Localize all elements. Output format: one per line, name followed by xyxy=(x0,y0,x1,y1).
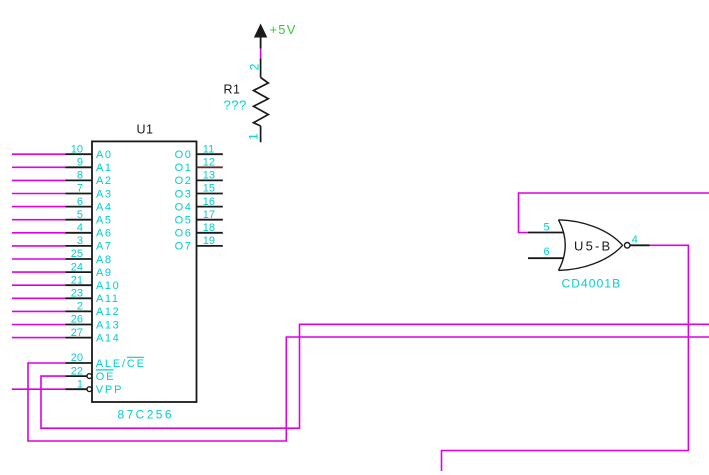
svg-text:5: 5 xyxy=(77,209,83,221)
wire net A10 xyxy=(12,284,66,286)
U1 pin 5 (A5) xyxy=(66,209,113,227)
svg-text:O2: O2 xyxy=(175,175,193,187)
svg-text:12: 12 xyxy=(203,157,215,169)
svg-text:VPP: VPP xyxy=(96,384,123,396)
wire net OE (pin 22 to right edge) xyxy=(41,324,709,428)
svg-text:U1: U1 xyxy=(137,123,154,137)
U1 pin 4 (A6) xyxy=(66,222,113,240)
svg-text:A4: A4 xyxy=(96,201,113,213)
U1 pin 1 (VPP, bubble) xyxy=(66,378,124,396)
U5-B pin 4 output stub xyxy=(630,234,649,246)
svg-text:17: 17 xyxy=(203,209,215,221)
svg-text:19: 19 xyxy=(203,235,215,247)
svg-text:18: 18 xyxy=(203,222,215,234)
U1 pin 8 (A2) xyxy=(66,170,113,188)
wire net to U5-B pin 5 (to right edge) xyxy=(519,193,709,233)
U5-B pin 6 stub xyxy=(528,246,563,258)
svg-text:O3: O3 xyxy=(175,188,193,200)
svg-text:A10: A10 xyxy=(96,280,120,292)
svg-text:9: 9 xyxy=(77,157,83,169)
svg-text:2: 2 xyxy=(248,63,262,70)
svg-text:26: 26 xyxy=(71,314,83,326)
svg-text:15: 15 xyxy=(203,183,215,195)
wire net A0 xyxy=(12,153,66,155)
svg-text:21: 21 xyxy=(71,274,83,286)
svg-text:23: 23 xyxy=(71,288,83,300)
svg-text:27: 27 xyxy=(71,327,83,339)
U1 pin 7 (A3) xyxy=(66,183,113,201)
svg-text:+5V: +5V xyxy=(270,22,297,37)
U1 pin 15 (O3) xyxy=(175,183,223,201)
svg-text:20: 20 xyxy=(71,352,83,364)
svg-text:1: 1 xyxy=(77,378,83,390)
svg-text:24: 24 xyxy=(71,261,83,273)
svg-text:O4: O4 xyxy=(175,201,193,213)
U1 pin 11 (O0) xyxy=(175,143,223,161)
svg-text:A11: A11 xyxy=(96,293,120,305)
svg-text:CD4001B: CD4001B xyxy=(562,277,622,291)
NOR gate U5-B body xyxy=(559,220,631,271)
power symbol +5V xyxy=(254,22,297,49)
U1 pin 12 (O1) xyxy=(175,157,223,175)
svg-text:A12: A12 xyxy=(96,306,120,318)
svg-text:R1: R1 xyxy=(224,83,241,97)
svg-text:A0: A0 xyxy=(96,149,113,161)
U1 pin 17 (O5) xyxy=(175,209,223,227)
U1 pin 10 (A0) xyxy=(66,143,113,161)
U1 pin 27 (A14) xyxy=(66,327,121,345)
svg-text:A7: A7 xyxy=(96,241,113,253)
U1 pin 3 (A7) xyxy=(66,235,113,253)
wire net A13 xyxy=(12,324,66,326)
svg-text:11: 11 xyxy=(203,143,214,155)
U5-B pin 5 stub xyxy=(528,222,563,234)
wire net A5 xyxy=(12,219,66,221)
svg-text:A14: A14 xyxy=(96,332,120,344)
svg-text:8: 8 xyxy=(77,170,83,182)
wire net A2 xyxy=(12,179,66,181)
U1 pin 16 (O4) xyxy=(175,196,223,214)
wire net A3 xyxy=(12,193,66,195)
U1 pin 25 (A8) xyxy=(66,248,113,266)
U1 pin 20 (ALE/CE) xyxy=(66,352,146,370)
U1 pin 24 (A9) xyxy=(66,261,113,279)
svg-text:22: 22 xyxy=(71,365,83,377)
U1 pin 2 (A12) xyxy=(66,301,121,319)
wire net A12 xyxy=(12,310,66,312)
U1 pin 23 (A11) xyxy=(66,288,120,306)
svg-text:O7: O7 xyxy=(175,241,193,253)
svg-text:O6: O6 xyxy=(175,228,193,240)
svg-text:OE: OE xyxy=(96,371,116,383)
svg-text:A8: A8 xyxy=(96,254,113,266)
svg-text:U5-B: U5-B xyxy=(574,239,612,254)
svg-text:???: ??? xyxy=(224,98,247,113)
U1 pin 26 (A13) xyxy=(66,314,121,332)
wire net A7 xyxy=(12,245,66,247)
U1 pin 13 (O2) xyxy=(175,170,223,188)
wire net A9 xyxy=(12,271,66,273)
resistor R1 xyxy=(254,59,269,143)
svg-text:4: 4 xyxy=(632,234,638,246)
svg-text:A6: A6 xyxy=(96,228,113,240)
U1 pin 21 (A10) xyxy=(66,274,121,292)
svg-text:2: 2 xyxy=(77,301,83,313)
U1 pin 9 (A1) xyxy=(66,157,113,175)
wire +5V net to R1 pin 2 xyxy=(260,49,262,59)
svg-text:4: 4 xyxy=(77,222,83,234)
svg-text:A5: A5 xyxy=(96,215,113,227)
svg-text:A1: A1 xyxy=(96,162,113,174)
svg-text:1: 1 xyxy=(247,133,261,140)
svg-text:O0: O0 xyxy=(175,149,193,161)
svg-text:A13: A13 xyxy=(96,319,120,331)
wire net A14 xyxy=(12,337,66,339)
U1 pin 22 (OE, active low bubble) xyxy=(66,365,116,383)
wire net A1 xyxy=(12,166,66,168)
U1 pin 6 (A4) xyxy=(66,196,113,214)
svg-text:ALE/CE: ALE/CE xyxy=(96,358,146,370)
wire net A4 xyxy=(12,206,66,208)
svg-text:O1: O1 xyxy=(175,162,193,174)
svg-text:5: 5 xyxy=(544,222,550,234)
svg-text:3: 3 xyxy=(77,235,83,247)
svg-text:A2: A2 xyxy=(96,175,113,187)
wire net A11 xyxy=(12,297,66,299)
IC U1 body (87C256) xyxy=(92,141,197,402)
U1 pin 18 (O6) xyxy=(175,222,223,240)
svg-text:7: 7 xyxy=(77,183,83,195)
wire net A6 xyxy=(12,232,66,234)
svg-text:10: 10 xyxy=(71,143,83,155)
svg-text:6: 6 xyxy=(544,246,550,258)
svg-text:A9: A9 xyxy=(96,267,113,279)
wire net A8 xyxy=(12,258,66,260)
svg-text:87C256: 87C256 xyxy=(118,408,174,422)
svg-text:16: 16 xyxy=(203,196,215,208)
wire net from U5-B pin 4 output xyxy=(442,245,689,471)
svg-text:25: 25 xyxy=(71,248,83,260)
wire net ALE/CE (pin 20 to right edge) xyxy=(28,337,709,441)
svg-text:6: 6 xyxy=(77,196,83,208)
svg-text:13: 13 xyxy=(203,170,215,182)
svg-text:O5: O5 xyxy=(175,215,193,227)
wire net to VPP pin 1 xyxy=(12,388,66,390)
U1 pin 19 (O7) xyxy=(175,235,223,253)
svg-text:A3: A3 xyxy=(96,188,113,200)
